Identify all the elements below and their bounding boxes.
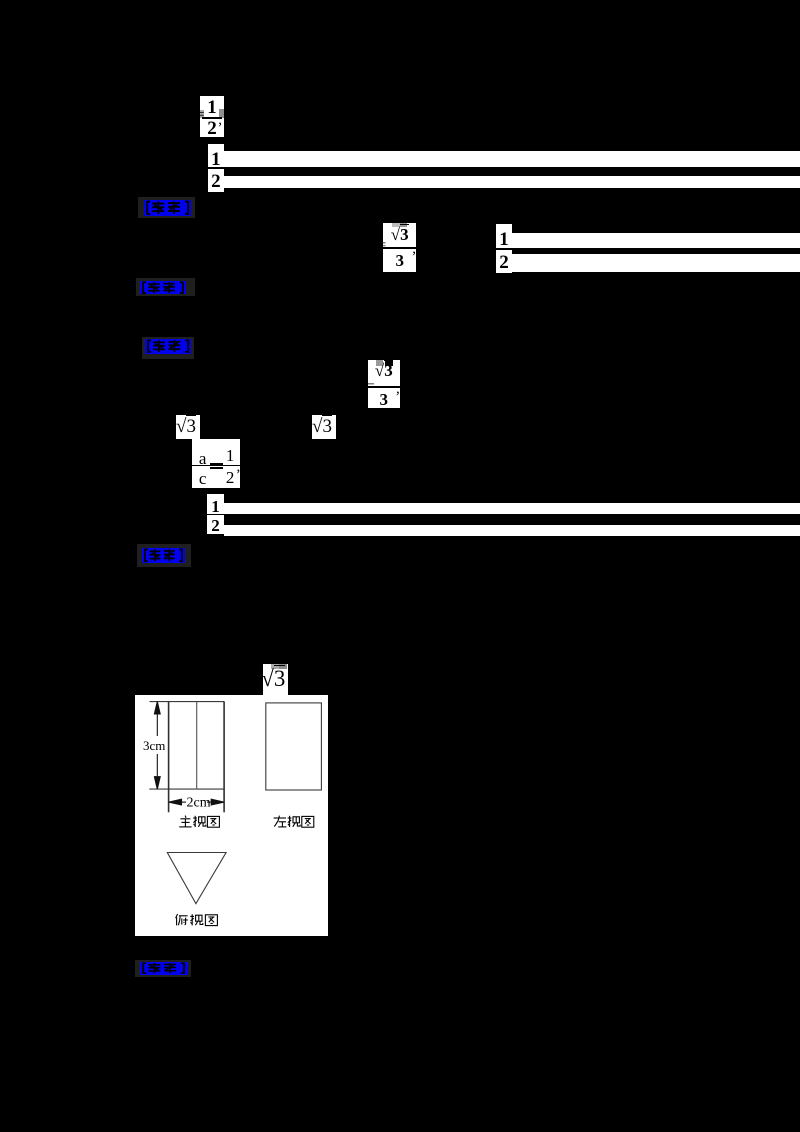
blue label 4 [137, 544, 191, 567]
three-view figure on white background [135, 695, 328, 936]
white shaded text line F [224, 525, 800, 536]
blue label 1 [138, 197, 195, 218]
label 主视图 [179, 816, 219, 828]
formula image: 1/2 (line pair A/B) [208, 144, 224, 192]
formula image: 1/2 (line pair E/F) [207, 494, 224, 534]
white shaded text line D [512, 254, 800, 272]
formula image: sqrt(3) left [176, 415, 200, 439]
blue label 5 [135, 960, 191, 977]
svg-text:3cm: 3cm [143, 738, 165, 753]
3cm dimension arrow [156, 709, 158, 736]
front view middle division line [196, 702, 198, 790]
left view rectangle [266, 703, 322, 790]
front view rectangle top and bottom with left tick extension [150, 701, 225, 703]
blue label 2 [136, 278, 195, 296]
white shaded text line B [224, 176, 800, 189]
formula image: 1/2 (line pair C/D) [496, 224, 512, 273]
white shaded text line E [224, 503, 800, 514]
white shaded text line A [224, 151, 800, 167]
formula image: =1/2, [200, 96, 224, 137]
label 俯视图 [176, 914, 218, 926]
formula image: sqrt(3)/3 , (second) [368, 360, 400, 408]
svg-text:2cm: 2cm [187, 796, 211, 811]
formula image: a/c = 1/2 [192, 439, 240, 488]
2cm dimension arrow [181, 801, 186, 803]
formula image: sqrt(3) right [312, 415, 336, 439]
top view triangle [167, 853, 226, 904]
label 左视图 [274, 816, 314, 828]
blue label 3 [142, 337, 194, 359]
formula image: sqrt(3) above figure [263, 664, 288, 695]
white shaded text line C [512, 233, 800, 249]
front view sides extended down for 2cm dimension [168, 702, 170, 813]
formula image: sqrt(3)/3 [383, 223, 416, 272]
